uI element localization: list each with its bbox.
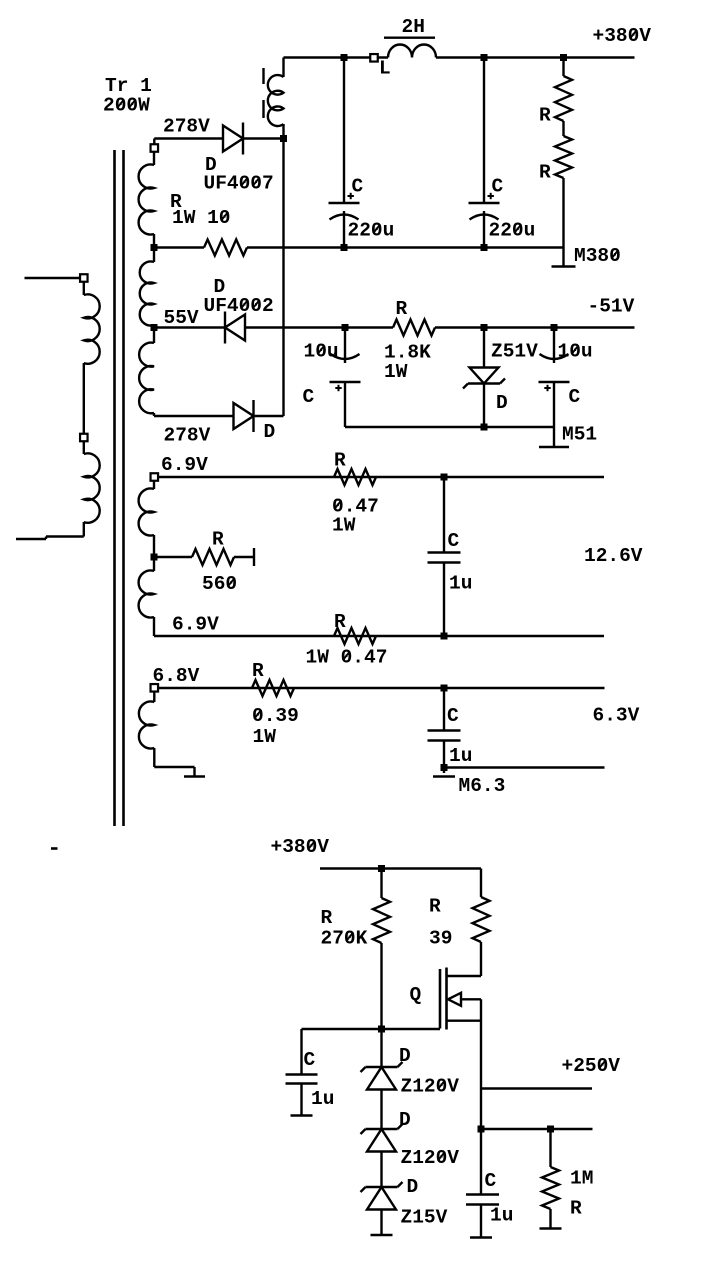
svg-text:R: R xyxy=(334,611,346,633)
svg-text:1u: 1u xyxy=(449,573,472,595)
svg-text:1W 10: 1W 10 xyxy=(172,207,231,229)
svg-text:1W: 1W xyxy=(332,515,356,537)
svg-text:M51: M51 xyxy=(562,424,597,446)
svg-text:C: C xyxy=(447,705,459,727)
svg-text:270K: 270K xyxy=(321,928,368,950)
svg-text:C: C xyxy=(485,1170,497,1192)
svg-text:6.8V: 6.8V xyxy=(153,665,200,687)
svg-text:Z51V: Z51V xyxy=(491,341,538,363)
svg-text:6.9V: 6.9V xyxy=(161,454,208,476)
svg-text:D: D xyxy=(496,392,508,414)
svg-text:Q: Q xyxy=(410,984,422,1006)
svg-text:12.6V: 12.6V xyxy=(584,545,643,567)
svg-text:D: D xyxy=(407,1176,419,1198)
svg-text:C: C xyxy=(569,386,581,408)
svg-text:1M: 1M xyxy=(570,1168,593,1190)
svg-text:278V: 278V xyxy=(164,425,211,447)
svg-text:1W: 1W xyxy=(253,726,277,748)
svg-text:R: R xyxy=(212,529,224,551)
svg-text:R: R xyxy=(539,105,551,127)
svg-text:C: C xyxy=(303,386,315,408)
svg-text:1u: 1u xyxy=(449,745,472,767)
svg-text:C: C xyxy=(304,1049,316,1071)
svg-text:278V: 278V xyxy=(163,116,210,138)
svg-text:C: C xyxy=(448,530,460,552)
svg-text:UF4002: UF4002 xyxy=(204,295,274,317)
svg-text:UF4007: UF4007 xyxy=(204,173,274,195)
svg-text:39: 39 xyxy=(429,928,452,950)
svg-text:2H: 2H xyxy=(402,16,425,38)
svg-text:R: R xyxy=(429,896,441,918)
svg-text:Z120V: Z120V xyxy=(401,1147,460,1169)
svg-text:220u: 220u xyxy=(348,220,395,242)
svg-text:560: 560 xyxy=(202,573,237,595)
svg-text:1W: 1W xyxy=(384,361,408,383)
svg-text:-51V: -51V xyxy=(588,296,635,318)
svg-text:C: C xyxy=(492,176,504,198)
svg-text:55V: 55V xyxy=(164,307,199,329)
svg-text:+250V: +250V xyxy=(562,1055,621,1077)
svg-text:1u: 1u xyxy=(311,1088,334,1110)
svg-text:R: R xyxy=(570,1198,582,1220)
svg-text:L: L xyxy=(379,58,391,80)
svg-text:10u: 10u xyxy=(558,341,593,363)
svg-text:Z120V: Z120V xyxy=(401,1076,460,1098)
svg-text:M6.3: M6.3 xyxy=(459,775,506,797)
svg-text:R: R xyxy=(539,162,551,184)
svg-text:0.39: 0.39 xyxy=(252,705,299,727)
svg-text:220u: 220u xyxy=(489,220,536,242)
svg-text:R: R xyxy=(252,660,264,682)
svg-text:Z15V: Z15V xyxy=(401,1207,448,1229)
svg-text:D: D xyxy=(399,1109,411,1131)
svg-text:R: R xyxy=(334,450,346,472)
svg-text:C: C xyxy=(352,176,364,198)
svg-text:R: R xyxy=(321,907,333,929)
svg-text:6.9V: 6.9V xyxy=(172,614,219,636)
svg-text:1u: 1u xyxy=(490,1205,513,1227)
svg-text:200W: 200W xyxy=(103,95,150,117)
svg-text:D: D xyxy=(399,1045,411,1067)
svg-text:+380V: +380V xyxy=(271,836,330,858)
svg-text:+380V: +380V xyxy=(593,25,652,47)
svg-text:R: R xyxy=(396,298,408,320)
svg-text:10u: 10u xyxy=(304,341,339,363)
svg-text:D: D xyxy=(264,421,276,443)
svg-text:6.3V: 6.3V xyxy=(593,705,640,727)
svg-text:1W 0.47: 1W 0.47 xyxy=(306,647,388,669)
